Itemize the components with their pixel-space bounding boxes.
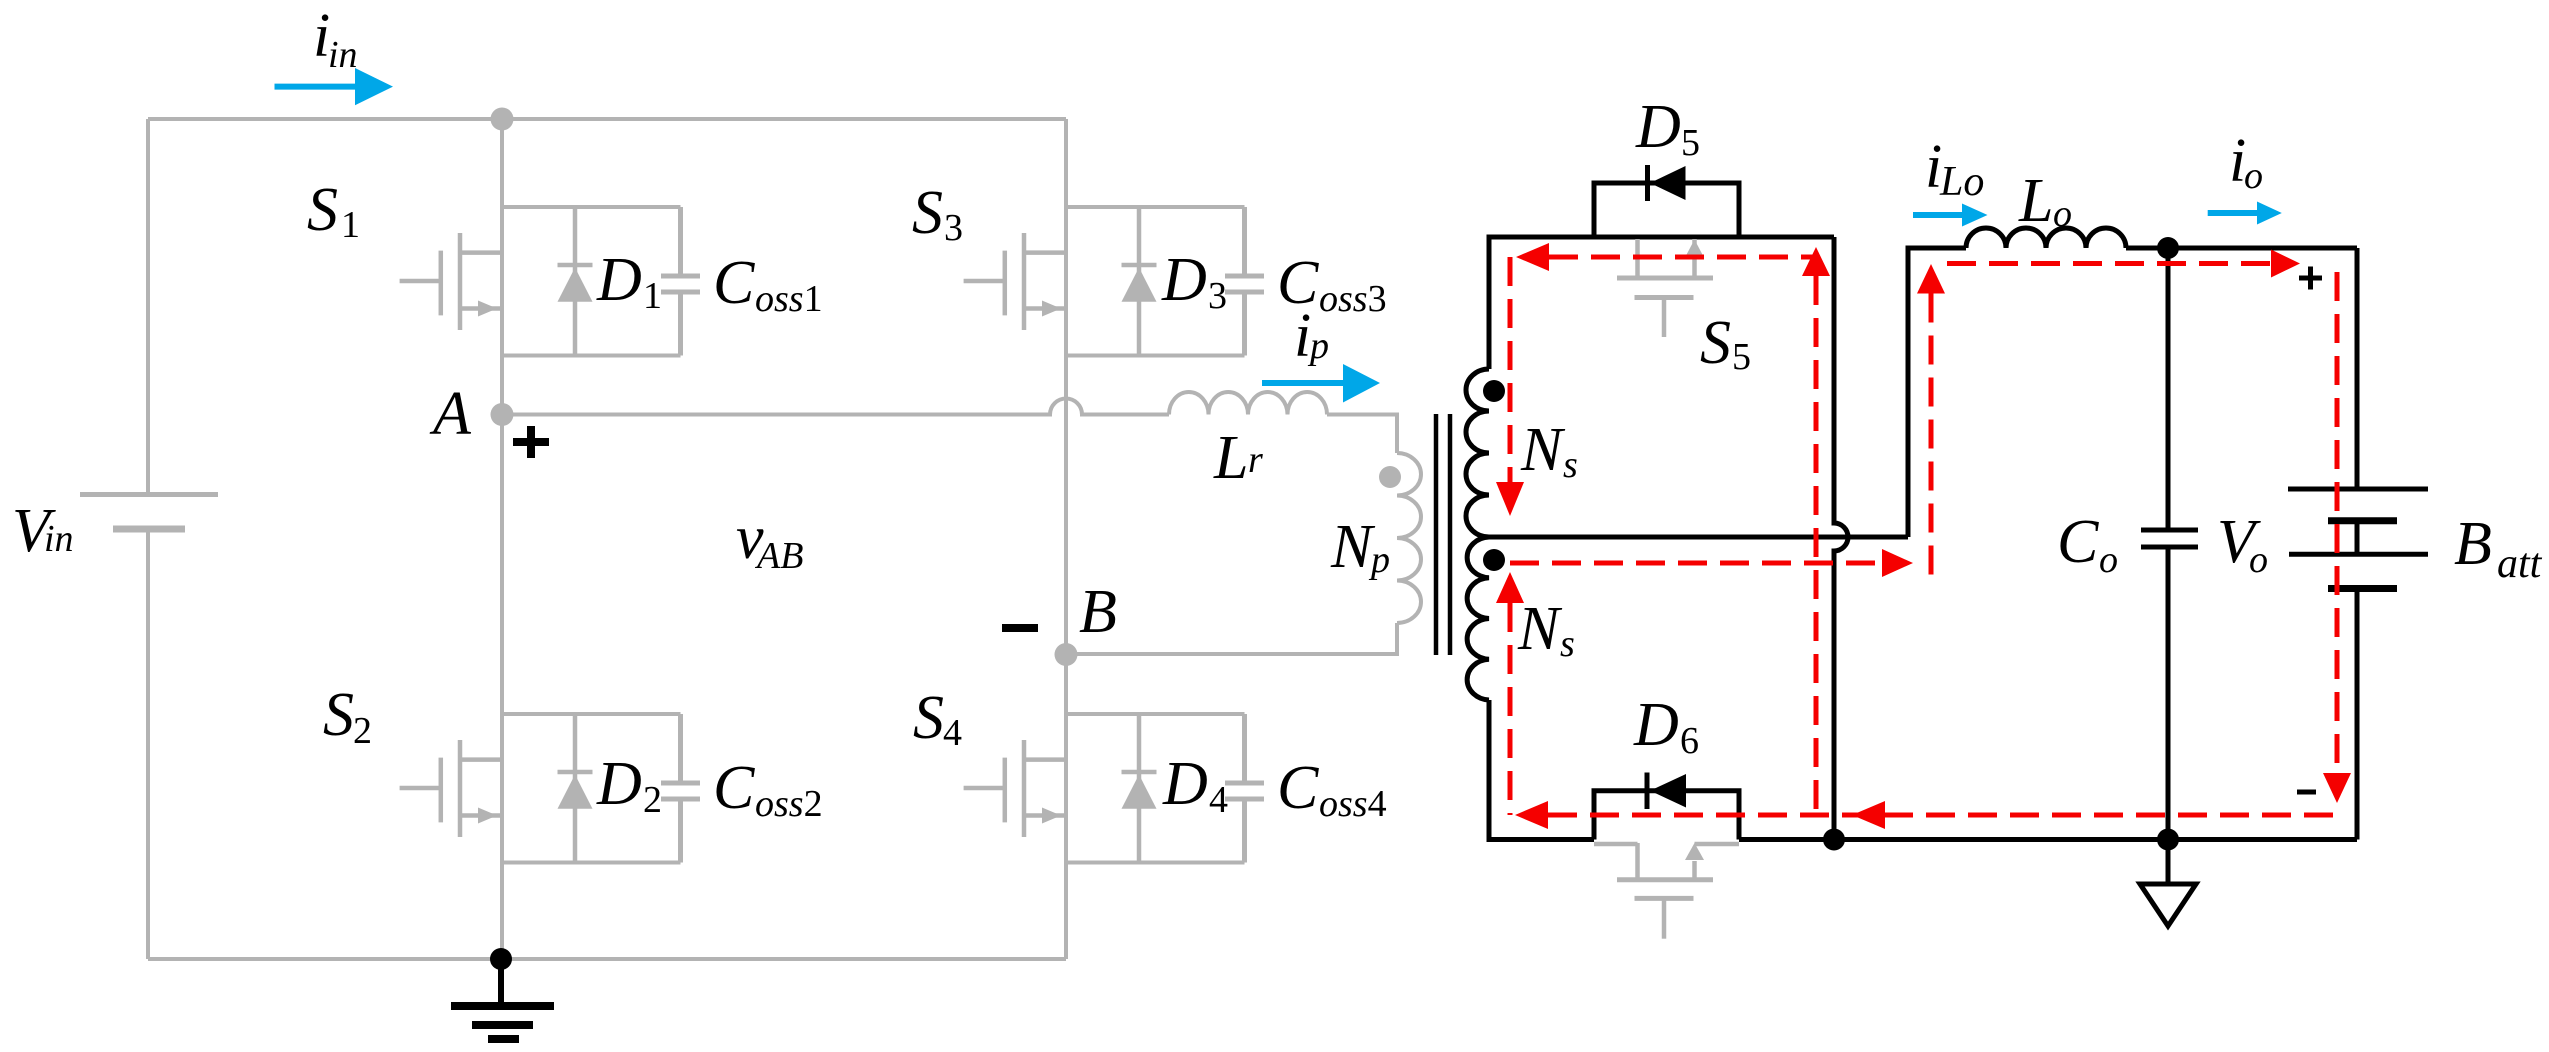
svg-text:4: 4 xyxy=(943,712,962,754)
svg-text:Lo: Lo xyxy=(1939,159,1984,205)
junction rectifier right / bottom line xyxy=(1823,829,1845,851)
wire current path arrow up (rectifier right) xyxy=(1802,247,1830,276)
transistor S3 xyxy=(964,233,1066,330)
svg-text:4: 4 xyxy=(1209,779,1228,821)
svg-text:r: r xyxy=(1248,439,1263,481)
diode D5 branch xyxy=(1594,165,1739,237)
junction bottom rail ground node xyxy=(490,948,512,970)
transistor S1 xyxy=(400,233,502,330)
diode D2 (body diode) xyxy=(558,714,593,863)
svg-text:2: 2 xyxy=(353,710,372,752)
svg-text:oss3: oss3 xyxy=(1319,278,1387,320)
transformer secondary polarity dot (top) xyxy=(1483,380,1505,402)
svg-text:S: S xyxy=(913,684,944,752)
wire current path arrow left (bottom return near D6) xyxy=(1515,801,1548,829)
capacitor Coss3 xyxy=(1225,207,1264,356)
output polarity plus sign xyxy=(2299,267,2322,290)
inductor Lo xyxy=(1966,228,2126,248)
wire bottom rail xyxy=(148,957,1066,961)
transformer core xyxy=(1436,414,1450,655)
svg-text:oss1: oss1 xyxy=(755,278,823,320)
svg-text:o: o xyxy=(2244,155,2263,197)
svg-text:att: att xyxy=(2497,541,2543,587)
wire S3 leg xyxy=(1064,119,1068,654)
wire current path arrow down (battery right) xyxy=(2323,773,2351,803)
wire primary return to node B xyxy=(1066,623,1397,654)
wire Lr to primary winding xyxy=(1327,415,1397,454)
wire S3 source stub xyxy=(1066,354,1245,358)
wire right rail upper xyxy=(2355,248,2360,489)
transformer secondary winding Ns (top) xyxy=(1466,369,1489,537)
wire output top line xyxy=(2126,246,2357,251)
diode D3 (body diode) xyxy=(1122,207,1157,356)
svg-text:S: S xyxy=(912,179,943,247)
arrow i_o xyxy=(2208,210,2258,216)
wire S1 source stub xyxy=(502,354,681,358)
output polarity minus sign xyxy=(2297,790,2316,795)
svg-text:o: o xyxy=(2053,193,2072,235)
wire current path: bottom return run xyxy=(1548,813,2337,818)
arrow i_Lo xyxy=(1913,212,1963,218)
svg-text:i: i xyxy=(1294,302,1311,370)
wire current path: output top run xyxy=(1947,261,2271,266)
junction top rail / S1 leg xyxy=(491,108,514,131)
svg-text:oss2: oss2 xyxy=(755,783,823,825)
transformer secondary winding Ns (bottom) xyxy=(1467,537,1489,700)
capacitor Coss4 xyxy=(1225,714,1264,863)
node B polarity minus sign xyxy=(1002,624,1038,632)
battery Batt cell plates xyxy=(2288,489,2428,589)
ground (output side) xyxy=(2140,840,2196,927)
svg-text:C: C xyxy=(2057,508,2099,576)
wire current path arrow up (riser) xyxy=(1917,264,1945,294)
wire current path arrow left (bottom return mid) xyxy=(1852,801,1885,829)
svg-text:L: L xyxy=(2018,167,2053,235)
svg-text:AB: AB xyxy=(754,535,803,577)
svg-text:o: o xyxy=(2099,539,2118,581)
svg-text:p: p xyxy=(1368,539,1390,581)
wire top rail xyxy=(148,117,1066,121)
svg-text:D: D xyxy=(1161,246,1207,314)
wire current path arrow left (top edge) xyxy=(1516,243,1549,271)
wire secondary bottom lead xyxy=(1489,700,1594,840)
transistor S6 (synchronous rectifier) xyxy=(1594,843,1739,939)
svg-text:3: 3 xyxy=(944,207,963,249)
transformer primary polarity dot xyxy=(1379,466,1401,488)
transformer primary winding Np xyxy=(1397,453,1421,623)
diode D6 branch xyxy=(1594,773,1739,840)
wire left rail upper xyxy=(146,119,150,495)
wire S2 leg xyxy=(500,415,504,960)
battery Vin long plate xyxy=(80,492,218,497)
wire center tap line xyxy=(1483,535,1908,540)
svg-text:in: in xyxy=(328,34,358,76)
arrow i_p xyxy=(1262,380,1345,386)
svg-text:2: 2 xyxy=(643,779,662,821)
svg-text:C: C xyxy=(713,249,755,317)
inductor Lr xyxy=(1169,392,1327,415)
transistor S2 xyxy=(400,740,502,837)
wire rectifier right side with hop over center tap xyxy=(1834,237,1848,840)
svg-text:in: in xyxy=(44,518,74,560)
wire current path arrow up (out of Ns bottom) xyxy=(1496,572,1524,603)
wire current path: battery right vertical xyxy=(2335,272,2340,773)
junction Co bottom / ground node xyxy=(2157,829,2179,851)
wire S2 drain stub xyxy=(502,712,681,716)
wire S1 leg xyxy=(500,119,504,415)
ground (primary side earth ground) xyxy=(451,959,554,1039)
wire node A line with hop over S3 leg xyxy=(502,399,1169,415)
wire left rail lower xyxy=(146,529,150,959)
node A xyxy=(491,403,514,426)
wire output bottom line xyxy=(1739,837,2357,842)
wire center tap riser xyxy=(1908,248,1966,537)
wire S4 leg xyxy=(1064,654,1068,959)
svg-text:D: D xyxy=(596,750,642,818)
wire current path: left vertical below center tap xyxy=(1508,603,1513,815)
svg-text:p: p xyxy=(1307,325,1329,367)
wire current path: center tap run xyxy=(1510,561,1882,566)
svg-text:5: 5 xyxy=(1732,336,1751,378)
battery Vin short plate xyxy=(113,526,185,533)
svg-text:C: C xyxy=(1277,754,1319,822)
diode D4 (body diode) xyxy=(1122,714,1157,863)
node A polarity plus sign xyxy=(513,426,549,458)
wire right rail lower xyxy=(2355,589,2360,840)
svg-text:oss4: oss4 xyxy=(1319,783,1387,825)
svg-text:s: s xyxy=(1560,623,1575,665)
node Vo+ output junction xyxy=(2157,237,2179,259)
svg-text:B: B xyxy=(1079,578,1117,646)
svg-text:6: 6 xyxy=(1680,720,1699,762)
wire current path arrow right (center tap) xyxy=(1882,549,1913,577)
svg-text:D: D xyxy=(596,246,642,314)
svg-text:1: 1 xyxy=(643,275,662,317)
svg-text:D: D xyxy=(1633,691,1679,759)
svg-text:S: S xyxy=(1700,309,1731,377)
transformer secondary polarity dot (bottom) xyxy=(1483,549,1505,571)
capacitor Co xyxy=(2141,248,2198,840)
wire secondary top lead and rectifier top line xyxy=(1489,237,1834,369)
svg-text:o: o xyxy=(2249,539,2268,581)
wire current path: riser vertical xyxy=(1929,294,1934,581)
transistor S5 (synchronous rectifier) xyxy=(1617,239,1713,337)
svg-text:B: B xyxy=(2454,510,2492,578)
svg-text:3: 3 xyxy=(1208,275,1227,317)
wire S2 source stub xyxy=(502,861,681,865)
svg-text:C: C xyxy=(713,754,755,822)
wire current path: rectifier loop top edge xyxy=(1549,255,1816,260)
svg-text:S: S xyxy=(307,176,338,244)
svg-text:L: L xyxy=(1213,424,1248,492)
svg-text:N: N xyxy=(1330,513,1376,581)
capacitor Coss2 xyxy=(661,714,700,863)
wire S3 drain stub xyxy=(1066,205,1245,209)
svg-text:S: S xyxy=(323,681,354,749)
svg-text:N: N xyxy=(1517,595,1563,663)
wire S1 drain stub xyxy=(502,205,681,209)
wire current path arrow right (output top) xyxy=(2271,250,2300,278)
wire S4 source stub xyxy=(1066,861,1245,865)
wire current path arrow down (into Ns top) xyxy=(1496,482,1524,516)
diode D1 (body diode) xyxy=(558,207,593,356)
svg-text:1: 1 xyxy=(341,204,360,246)
svg-text:A: A xyxy=(429,380,472,448)
svg-text:s: s xyxy=(1563,444,1578,486)
svg-text:5: 5 xyxy=(1681,122,1700,164)
arrow i_in xyxy=(275,84,358,90)
svg-text:D: D xyxy=(1162,750,1208,818)
capacitor Coss1 xyxy=(661,207,700,356)
transistor S4 xyxy=(964,740,1066,837)
wire current path: left vertical into Ns top xyxy=(1508,257,1513,482)
svg-text:N: N xyxy=(1520,416,1566,484)
svg-text:D: D xyxy=(1635,93,1681,161)
node B xyxy=(1055,643,1078,666)
wire current path: rectifier right vertical xyxy=(1814,276,1819,815)
wire S4 drain stub xyxy=(1066,712,1245,716)
